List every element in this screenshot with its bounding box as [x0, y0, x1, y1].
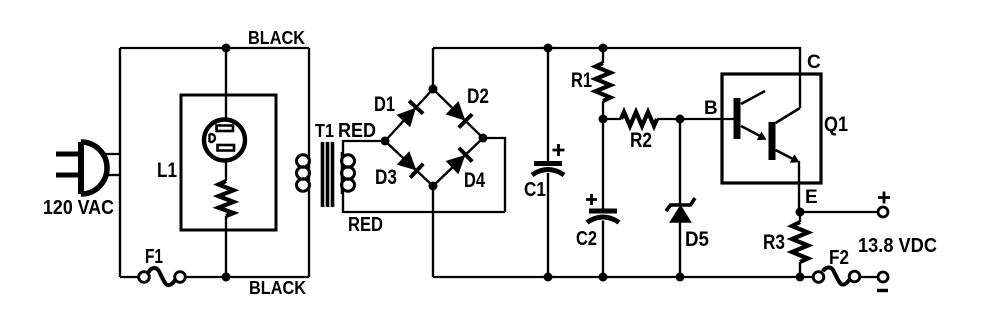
svg-text:RED: RED	[348, 214, 383, 236]
svg-text:C1: C1	[524, 179, 546, 201]
transistor Q1 first base bar	[734, 98, 741, 139]
wire: E node to + output terminal	[800, 211, 878, 213]
junction: bridge bottom vertex	[429, 182, 438, 191]
label + (C2)	[586, 194, 597, 205]
junction: bridge top vertex	[429, 85, 438, 94]
transistor Q1 second collector stroke	[776, 108, 801, 123]
svg-text:RED: RED	[338, 120, 376, 142]
wire: L1 vertical bottom	[225, 216, 227, 277]
svg-text:T1: T1	[315, 121, 334, 141]
terminal: - output	[878, 272, 888, 282]
junction: bridge left vertex	[381, 137, 390, 146]
wire: R2 to Q1 base	[657, 118, 734, 120]
junction: L1 top	[222, 44, 231, 53]
svg-text:C: C	[807, 52, 821, 73]
transformer T1 secondary winding	[342, 152, 355, 194]
svg-text:D4: D4	[464, 169, 485, 192]
lamp L1 socket face	[204, 120, 245, 161]
junction: D5 bottom	[676, 273, 685, 282]
svg-text:BLACK: BLACK	[249, 278, 306, 298]
wire: bridge edge left-top	[385, 89, 433, 141]
wire: top BLACK rail (primary side)	[120, 47, 309, 49]
wire: C1 bottom lead	[547, 173, 549, 277]
svg-text:13.8 VDC: 13.8 VDC	[858, 235, 937, 257]
zener diode D5	[666, 198, 695, 222]
wire: L1 vertical top	[225, 48, 227, 120]
wire: Q1 emitter down to E node	[798, 161, 800, 212]
transformer T1 core	[323, 142, 333, 207]
wire: bottom BLACK rail (primary side)	[186, 276, 310, 278]
wire: bottom rail left segment	[120, 276, 139, 278]
svg-text:D2: D2	[467, 85, 489, 108]
transistor Q1 first collector stroke	[741, 91, 765, 104]
junction: C1 top	[544, 44, 553, 53]
wire: F2 to - output terminal	[860, 276, 878, 278]
wire: D5 top lead	[679, 119, 681, 205]
junction: C2 bottom	[599, 273, 608, 282]
svg-text:C2: C2	[576, 228, 597, 250]
transformer T1 primary winding	[297, 155, 310, 191]
junction: bridge right vertex	[479, 134, 488, 143]
diode D4	[447, 148, 472, 173]
diode D1	[398, 101, 423, 126]
capacitor C2	[587, 211, 619, 223]
terminal: + output	[878, 207, 888, 217]
wire: D5 bottom lead	[679, 222, 681, 277]
transistor Q1 first emitter arrow	[757, 132, 767, 140]
junction: emitter output node	[796, 208, 805, 217]
label + (output)	[878, 192, 890, 204]
transistor Q1 enclosure box	[722, 74, 821, 183]
junction: D5 top node	[676, 115, 685, 124]
svg-text:D3: D3	[375, 166, 397, 189]
wire: ground bottom rail	[433, 276, 814, 278]
wire: C2 bottom lead	[602, 221, 604, 278]
wire: bridge edge top-right	[433, 89, 483, 138]
junction: L1 bottom	[222, 273, 231, 282]
svg-text:D1: D1	[374, 93, 395, 116]
diode D3	[398, 153, 423, 178]
diode D2	[447, 103, 472, 128]
wire: R2 left lead	[603, 118, 621, 120]
resistor inside L1	[219, 181, 234, 216]
wire: R1 bottom lead	[602, 101, 604, 119]
wire: C2 top lead	[602, 119, 604, 209]
wire: L1 between socket and resistor	[225, 161, 227, 182]
junction: C1 bottom	[544, 273, 553, 282]
label - (output)	[877, 289, 888, 292]
wire: secondary bottom lead RED	[343, 191, 505, 212]
svg-text:R2: R2	[630, 129, 652, 152]
svg-text:BLACK: BLACK	[248, 28, 305, 48]
AC plug	[56, 142, 107, 194]
wire: primary right vertical	[308, 48, 310, 277]
junction: R3 bottom	[796, 273, 805, 282]
wire: secondary top lead RED	[343, 141, 385, 155]
svg-text:L1: L1	[157, 159, 177, 182]
transistor Q1 first emitter stroke	[741, 126, 762, 137]
wire: R1 top lead	[602, 48, 604, 63]
wire: E node to R3	[799, 212, 801, 222]
capacitor C1	[532, 164, 564, 176]
svg-text:Q1: Q1	[824, 113, 848, 136]
wire: right vertex riser to secondary bottom	[483, 138, 505, 212]
wire: positive top rail to Q1 collector	[433, 48, 800, 74]
wire: bridge edge bottom-right	[433, 138, 483, 186]
wire: bridge top vertex to positive rail	[432, 48, 434, 89]
wire: C1 top lead	[547, 48, 549, 161]
transistor Q1 second emitter arrow	[790, 154, 800, 162]
label + (C1)	[553, 144, 565, 156]
svg-text:F2: F2	[829, 247, 849, 269]
svg-text:E: E	[805, 187, 818, 208]
resistor R3	[792, 222, 808, 262]
svg-text:120 VAC: 120 VAC	[43, 196, 114, 219]
svg-text:F1: F1	[145, 246, 163, 268]
svg-text:R1: R1	[571, 69, 592, 92]
transistor Q1 second base bar	[769, 122, 776, 160]
junction: R1 top	[599, 44, 608, 53]
svg-text:B: B	[704, 98, 718, 119]
svg-text:R3: R3	[763, 231, 785, 254]
wire: Q1 collector vertical inside box	[799, 74, 801, 108]
wire: left vertical rail	[119, 48, 121, 277]
wire: bridge edge left-bottom	[385, 141, 433, 186]
fuse F1	[139, 268, 186, 285]
wire: bridge bottom vertex to ground rail	[432, 186, 434, 277]
wire: R3 bottom lead	[799, 262, 801, 277]
junction: R1/R2/C2 node	[599, 115, 608, 124]
wire: plug lower lead to left rail	[104, 174, 120, 176]
transistor Q1 second emitter stroke	[776, 150, 797, 161]
resistor R1	[596, 63, 611, 101]
svg-text:D5: D5	[685, 228, 709, 251]
fuse F2	[813, 267, 860, 284]
lamp L1 enclosure box	[181, 95, 276, 230]
resistor R2	[621, 112, 657, 126]
wire: plug upper lead to left rail	[100, 153, 120, 155]
